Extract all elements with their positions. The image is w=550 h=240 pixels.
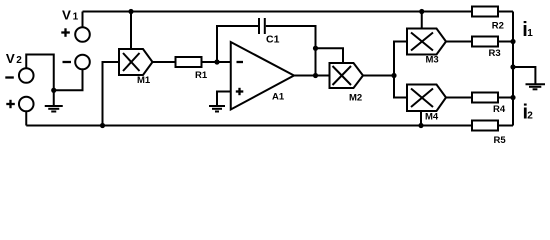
svg-text:M2: M2	[349, 93, 362, 104]
wire bus to M3 left input	[394, 42, 407, 76]
wire C1 to output node	[266, 26, 316, 48]
junction ground node	[51, 88, 56, 93]
svg-text:2: 2	[527, 111, 533, 122]
junction M2 output bus	[391, 73, 396, 78]
junction bus R4	[510, 95, 515, 100]
multiplier M1	[119, 49, 153, 75]
multiplier M2	[330, 63, 364, 88]
wire bottom rail	[26, 125, 472, 127]
wire M4 output to R4	[446, 97, 472, 99]
junction feedback and M2 top tap	[313, 46, 318, 51]
svg-text:R3: R3	[489, 48, 501, 59]
wire M2 output to bus	[363, 75, 394, 77]
junction bus ground tap	[510, 64, 515, 69]
wire R3 to bus	[498, 41, 513, 43]
resistor R5	[472, 121, 498, 131]
svg-text:C1: C1	[266, 33, 280, 45]
wire top rail	[83, 11, 473, 13]
label V1	[62, 7, 79, 22]
wire V1 positive terminal to top rail	[82, 12, 84, 28]
V1 plus sign	[61, 28, 70, 37]
junction bottom rail to M1 riser	[100, 123, 105, 128]
svg-text:M1: M1	[137, 75, 151, 86]
resistor R4	[472, 93, 498, 103]
label current i1	[522, 19, 533, 41]
wire bus to M4 left input	[394, 76, 407, 98]
wire M2 top tap	[316, 48, 344, 63]
ground symbol op-amp	[209, 106, 225, 112]
resistor R2	[472, 7, 498, 17]
capacitor C1	[259, 18, 265, 34]
wire op-amp output	[294, 75, 330, 77]
multiplier M3	[407, 29, 446, 55]
wire feedback riser to C1	[217, 26, 258, 62]
wire ground tap	[513, 67, 535, 84]
svg-text:R5: R5	[494, 135, 507, 146]
svg-text:1: 1	[527, 28, 533, 39]
wire M3 top input	[421, 12, 423, 29]
wire V2 negative terminal to ground node	[26, 55, 54, 91]
op-amp noninverting input plus sign	[236, 88, 244, 95]
wire M1 top input	[130, 12, 132, 50]
svg-text:A1: A1	[272, 92, 285, 103]
voltage source V2 negative terminal	[19, 68, 34, 83]
resistor R1	[176, 57, 202, 67]
V2 plus sign	[6, 100, 15, 108]
svg-text:1: 1	[73, 11, 79, 22]
op-amp A1	[231, 42, 294, 110]
svg-text:R1: R1	[195, 70, 208, 81]
svg-text:V: V	[62, 7, 71, 22]
label V2	[6, 51, 22, 66]
svg-text:M3: M3	[426, 55, 439, 66]
wire R1 to op-amp inverting input	[202, 61, 231, 63]
V1 minus sign	[63, 61, 72, 63]
junction bus R3	[510, 39, 515, 44]
wire V2 positive terminal to bottom rail	[25, 111, 27, 125]
voltage source V2 positive terminal	[19, 97, 34, 112]
wire R2 to bus	[498, 11, 513, 13]
wire M3 output to R3	[446, 41, 472, 43]
resistor R3	[472, 37, 498, 47]
wire feedback riser to output	[315, 48, 317, 75]
ground symbol left	[45, 90, 63, 111]
label current i2	[523, 102, 534, 124]
svg-text:M4: M4	[425, 112, 439, 123]
junction top rail to M3	[419, 9, 424, 14]
voltage source V1 negative terminal	[75, 55, 90, 70]
junction R1 output and feedback	[214, 59, 219, 64]
wire R4 to bus	[498, 97, 513, 99]
svg-text:R2: R2	[492, 20, 504, 31]
junction output node	[313, 73, 318, 78]
wire right bus	[512, 12, 514, 126]
svg-text:V: V	[6, 51, 15, 66]
wire R5 to bus	[498, 125, 513, 127]
wire M4 bottom input	[420, 111, 422, 126]
svg-text:R4: R4	[493, 104, 506, 115]
ground symbol right	[526, 84, 546, 89]
wire op-amp noninverting input to ground	[217, 92, 231, 106]
op-amp inverting input minus sign	[237, 61, 244, 63]
wire M1 left input riser	[103, 62, 120, 126]
junction bottom rail to M4 riser	[418, 123, 423, 128]
voltage source V1 positive terminal	[75, 27, 90, 42]
wire V1 negative terminal to ground node	[54, 69, 83, 90]
junction top rail to M1	[128, 9, 133, 14]
V2 minus sign	[5, 76, 14, 78]
multiplier M4	[407, 85, 446, 112]
svg-text:2: 2	[16, 55, 22, 66]
wire M1 output to R1	[153, 61, 176, 63]
